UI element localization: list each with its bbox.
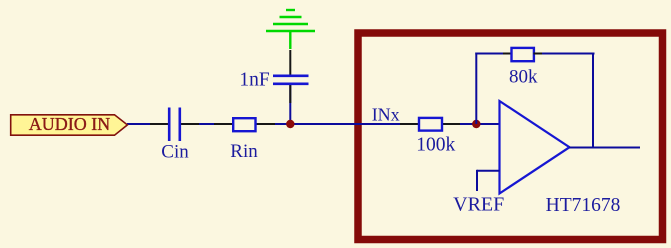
wire: Rin to 100k through node A and box edge	[256, 123, 419, 125]
label 1nF	[239, 70, 270, 91]
wire: 80k to feedback right vertical	[534, 53, 595, 55]
port AUDIO IN	[11, 114, 128, 135]
wire: feedback top left to 80k	[475, 53, 512, 55]
label 100k	[416, 135, 455, 156]
resistor R1 100k	[419, 118, 442, 131]
svg-text:Rin: Rin	[230, 141, 258, 162]
wire: node A up to 1nF capacitor	[289, 85, 291, 124]
op-amp U1	[500, 101, 570, 194]
label Rin	[230, 141, 258, 162]
svg-text:HT71678: HT71678	[546, 195, 621, 216]
svg-text:INx: INx	[372, 105, 400, 125]
resistor R2 80k	[512, 48, 534, 61]
capacitor C1 1nF (plates)	[273, 76, 309, 84]
label VREF (net name)	[453, 193, 504, 215]
label HT71678 (part name)	[546, 195, 621, 216]
svg-text:AUDIO IN: AUDIO IN	[29, 114, 110, 134]
label Cin	[161, 142, 189, 163]
label 80k	[509, 67, 538, 88]
junction node B (red dot)	[472, 120, 480, 128]
wire: feedback right vertical down to output	[592, 53, 594, 148]
svg-text:VREF: VREF	[453, 193, 504, 215]
wire: feedback left vertical (node B up)	[475, 53, 477, 125]
resistor Rin	[233, 118, 255, 131]
IC boundary box	[358, 33, 663, 240]
wire: 100k to op-amp input through node B	[442, 123, 499, 125]
svg-text:Cin: Cin	[161, 142, 189, 163]
wire: VREF stub to op-amp lower input	[477, 170, 500, 191]
capacitor Cin (plates)	[169, 108, 180, 142]
wire: Cin to Rin	[181, 123, 233, 125]
ground GND (earth, green)	[266, 10, 315, 49]
wire: op-amp output	[569, 147, 640, 149]
svg-text:1nF: 1nF	[239, 70, 270, 91]
junction node A (red dot)	[286, 120, 294, 128]
svg-text:100k: 100k	[416, 135, 455, 156]
wire: 1nF capacitor top pin to ground	[289, 50, 291, 75]
label INx (net name)	[372, 105, 400, 125]
svg-text:80k: 80k	[509, 67, 538, 88]
wire: port to Cin	[127, 123, 168, 125]
